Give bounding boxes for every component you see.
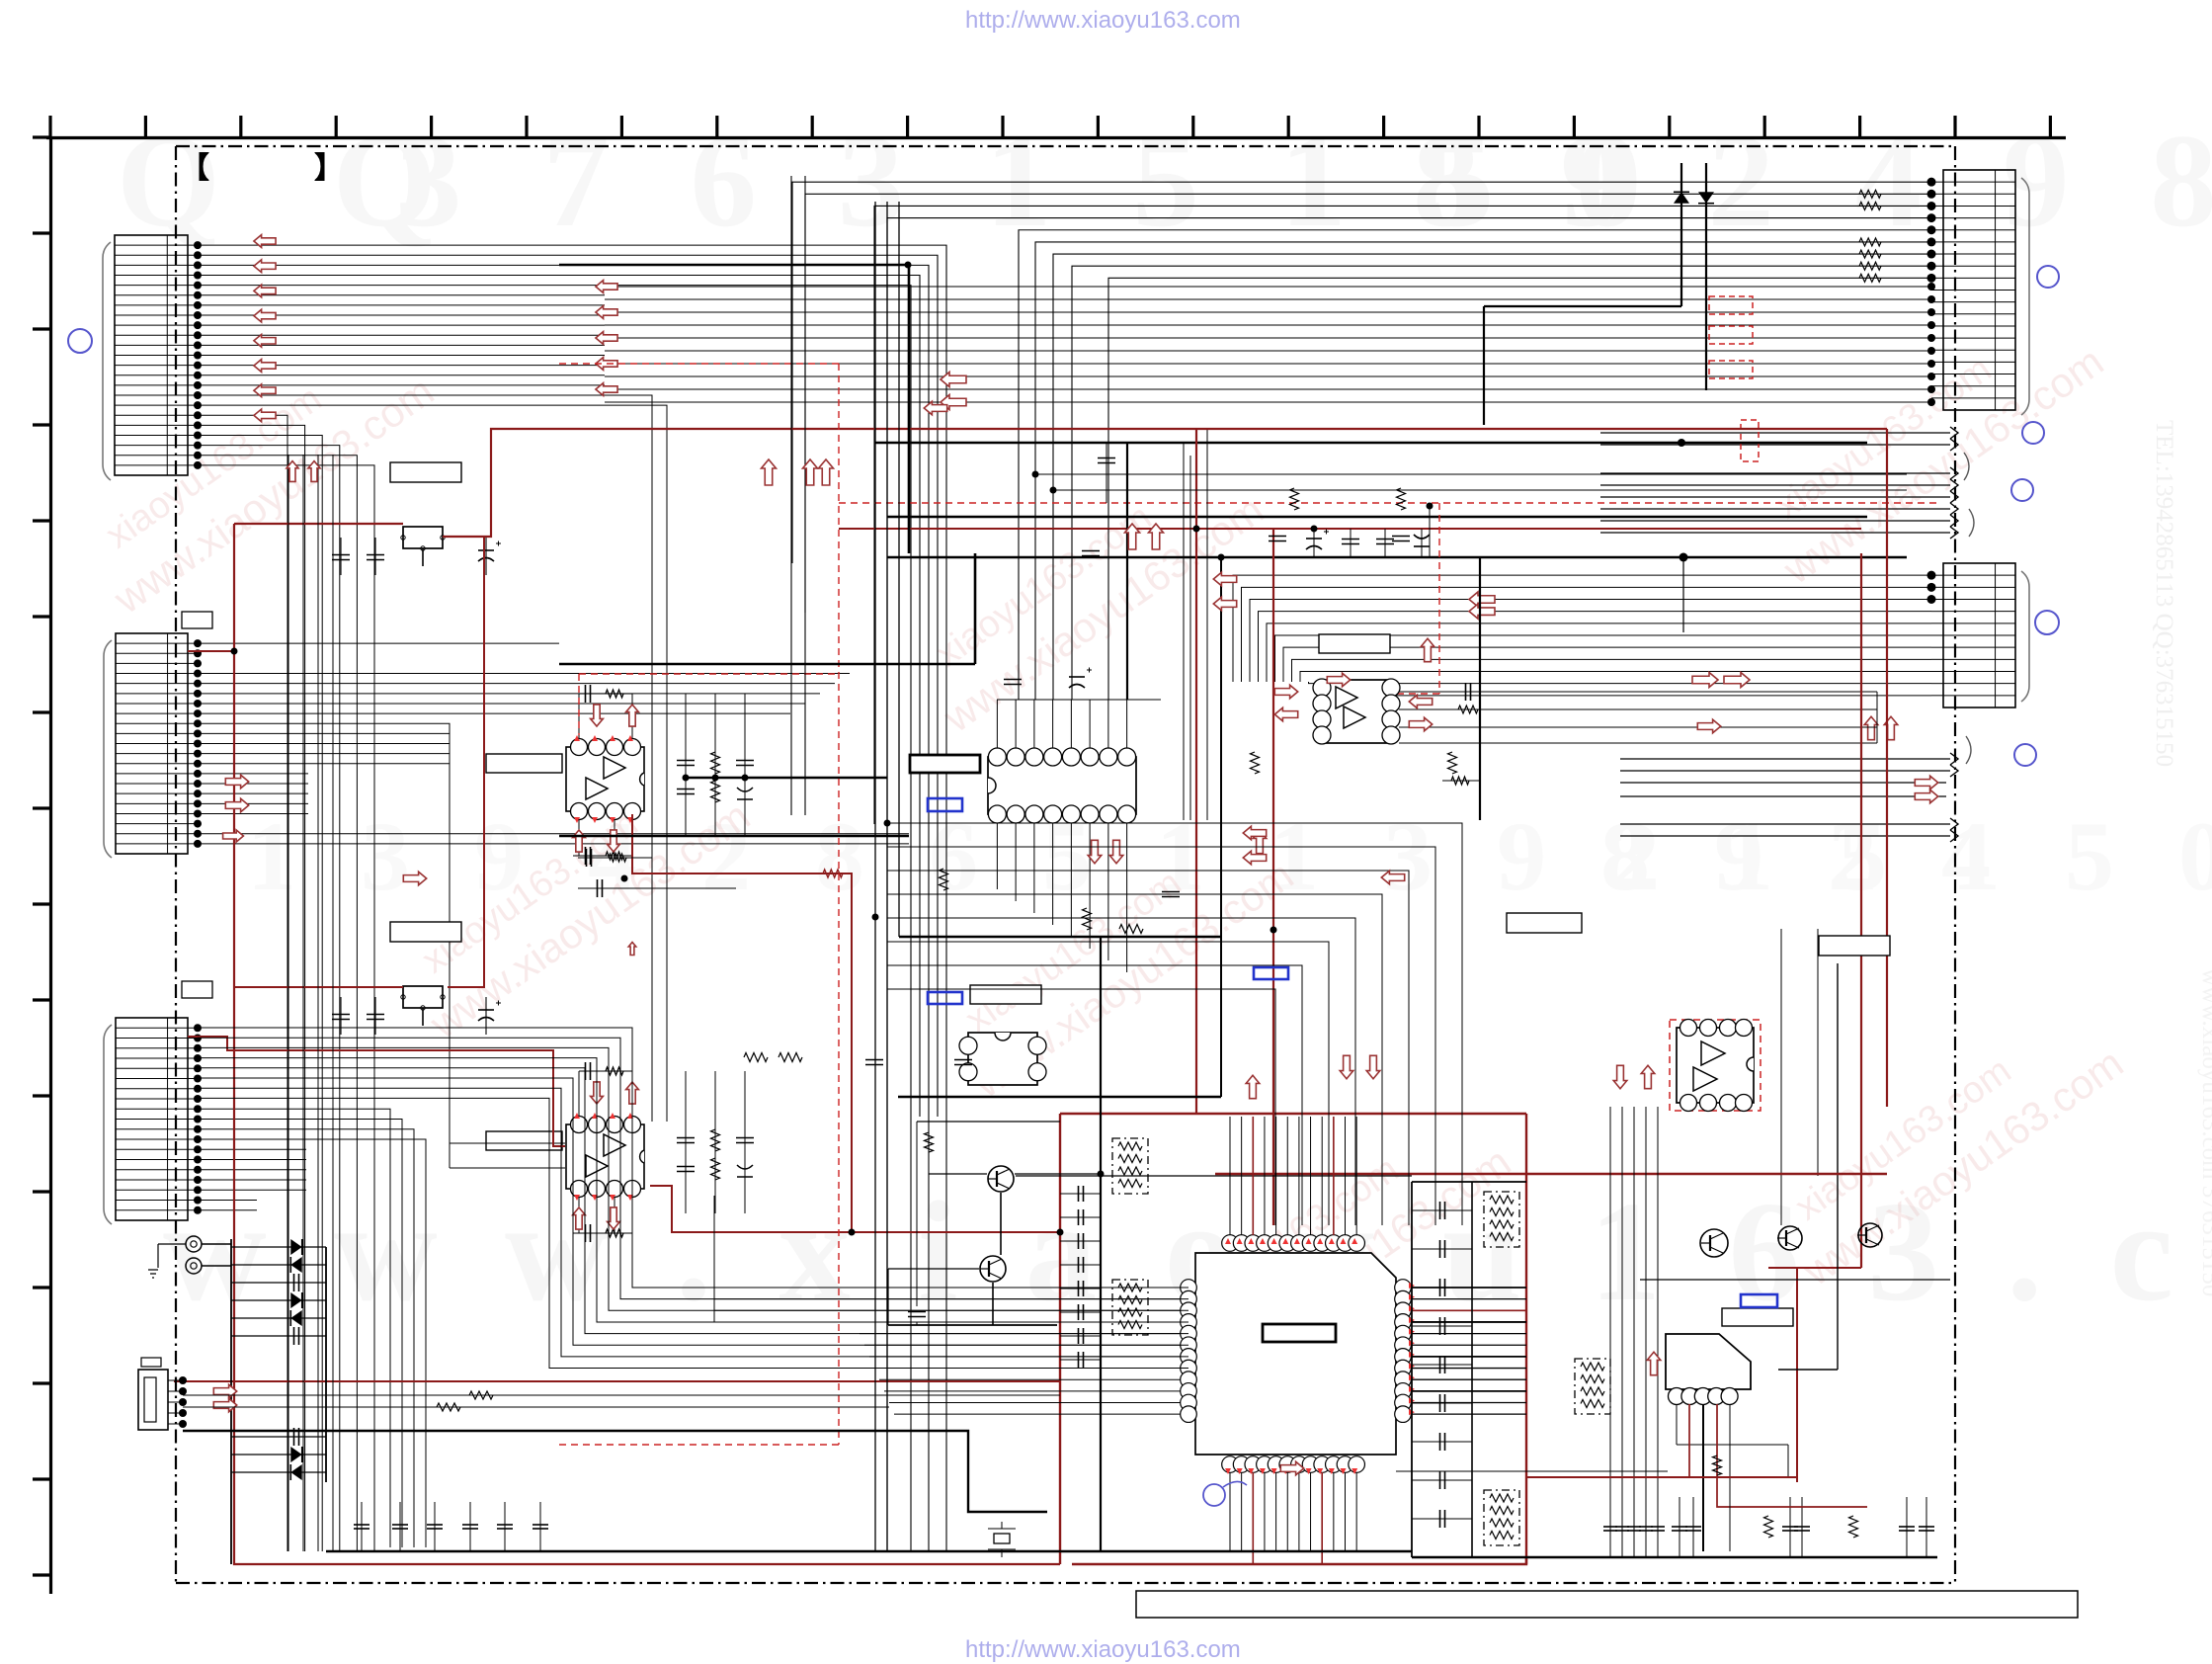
svg-text:【: 【	[180, 152, 209, 185]
svg-text:TEL:13942865113 QQ:376315150: TEL:13942865113 QQ:376315150	[2151, 420, 2177, 767]
svg-text:www.xiaoyu163.com 376315150: www.xiaoyu163.com 376315150	[2197, 968, 2212, 1296]
svg-text:8 9 2 4 9 8 2 9 9: 8 9 2 4 9 8 2 9 9	[1413, 108, 2212, 255]
svg-text:http://www.xiaoyu163.com: http://www.xiaoyu163.com	[965, 7, 1241, 34]
svg-text:8 9 2 4: 8 9 2 4	[1600, 801, 2010, 911]
svg-text:http://www.xiaoyu163.com: http://www.xiaoyu163.com	[965, 1636, 1241, 1663]
svg-text:】: 】	[314, 152, 344, 185]
